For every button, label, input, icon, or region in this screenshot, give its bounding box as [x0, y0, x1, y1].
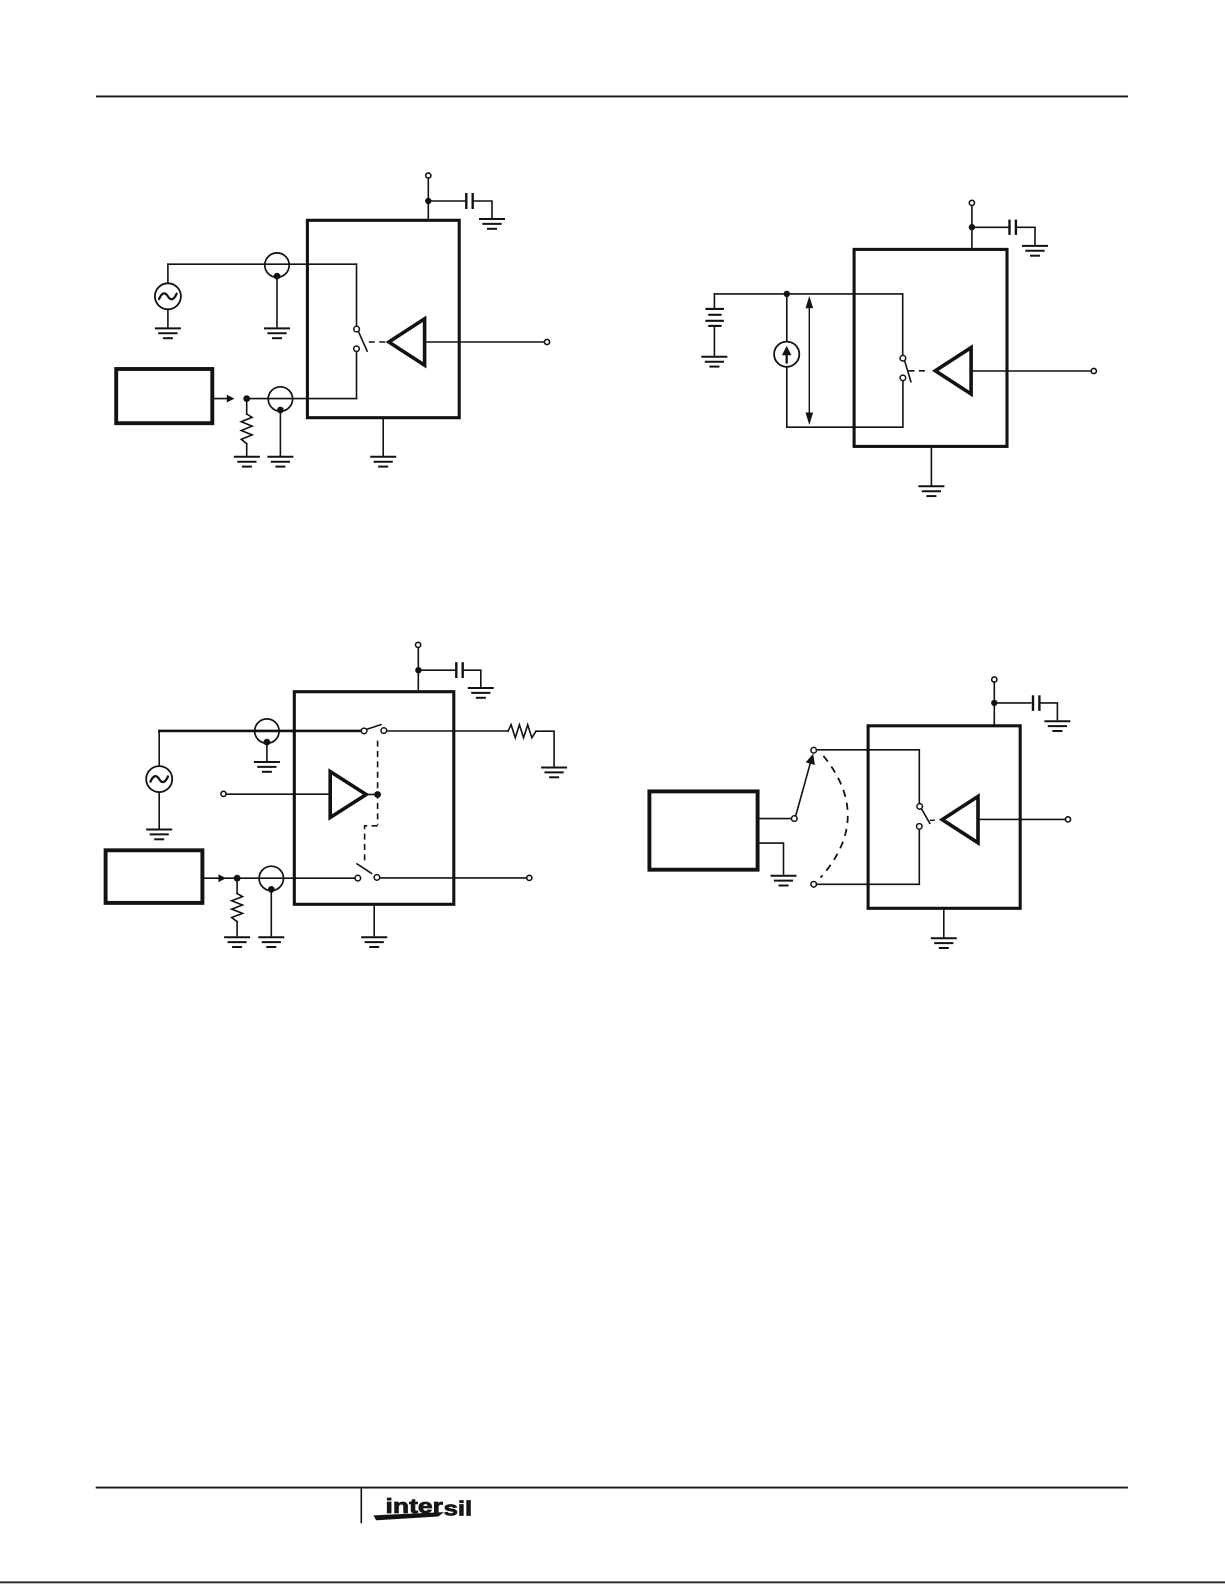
bottom scan line: [0, 1581, 1225, 1583]
oscillator source (circuit 3): [146, 766, 172, 792]
ground at lower probe (circuit 1): [267, 457, 293, 467]
intersil logo: [373, 1495, 472, 1521]
wire probe upper to ground (circuit 3): [266, 746, 268, 761]
wire junction to resistor (circuit 1): [246, 399, 248, 414]
ground at upper probe (circuit 1): [264, 328, 290, 338]
wire to bypass capacitor (circuit 4): [994, 702, 1031, 704]
wire to bypass capacitor (circuit 3): [418, 669, 455, 671]
selector dashed travel arc (circuit 4): [821, 756, 848, 878]
output terminal (circuit 1): [544, 339, 549, 344]
buffer amplifier (circuit 3): [330, 772, 366, 818]
wire to load resistor (circuit 3): [387, 730, 508, 732]
upper switch right contact (circuit 3): [381, 728, 387, 734]
wire probe lower to ground (circuit 1): [279, 414, 281, 456]
switch bottom contact (circuit 2): [900, 375, 906, 381]
switch top contact (circuit 4): [917, 804, 923, 810]
wire input to buffer (circuit 3): [226, 793, 330, 795]
ground at termination resistor (circuit 3): [224, 937, 250, 947]
dashed link switch to buffer (circuit 1): [369, 341, 386, 343]
wire switch bottom contact down (circuit 1): [356, 352, 358, 399]
junction V+ (circuit 4): [991, 700, 997, 706]
wire capacitor to ground (circuit 1): [473, 201, 492, 218]
ground at DUT (circuit 3): [361, 937, 387, 947]
wire to current source (circuit 2): [786, 294, 788, 342]
wire to switch bottom contact (circuit 4): [918, 829, 920, 884]
wire DUT ground pin (circuit 1): [382, 418, 384, 456]
selector pivot contact (circuit 4): [792, 816, 798, 822]
lower switch right contact (circuit 3): [374, 875, 380, 881]
terminal V+ (circuit 3): [416, 642, 421, 647]
wire output lower (circuit 3): [380, 877, 527, 879]
signal flow arrow (circuit 1): [227, 395, 235, 403]
wire capacitor to ground (circuit 2): [1016, 227, 1035, 244]
wire switch bottom contact down (circuit 2): [902, 381, 904, 428]
wire junction to resistor (circuit 3): [236, 878, 238, 893]
ground at bypass capacitor (circuit 4): [1044, 721, 1070, 731]
ground at DUT (circuit 1): [370, 457, 396, 467]
svg-text:sil: sil: [444, 1498, 473, 1521]
upper switch blade (circuit 3): [367, 725, 381, 730]
wire to switch top contact (circuit 4): [918, 750, 920, 804]
switch blade (circuit 4): [921, 809, 929, 824]
junction at termination resistor (circuit 3): [234, 875, 241, 882]
wire to switch top contact (circuit 1): [356, 264, 358, 326]
wire resistor to ground (circuit 1): [246, 444, 248, 456]
terminal V+ (circuit 4): [992, 677, 997, 682]
wire V+ vertical (circuit 1): [427, 178, 429, 220]
wire resistor to ground (circuit 3): [236, 922, 238, 936]
output wire (circuit 1): [425, 341, 545, 343]
wire capacitor to ground (circuit 4): [1039, 703, 1057, 720]
ground at oscillator (circuit 3): [146, 830, 172, 840]
junction V+ (circuit 1): [425, 198, 431, 204]
test circuit 3: DUT box: [294, 692, 454, 905]
wire oscillator to ground (circuit 3): [158, 792, 160, 828]
dashed link switch to buffer (circuit 2): [909, 370, 927, 372]
wire resistor to ground (circuit 3): [536, 731, 554, 766]
current probe lower (circuit 3): [259, 866, 283, 893]
voltage span arrow (circuit 2): [806, 296, 814, 425]
output terminal (circuit 3): [527, 875, 532, 880]
wire DUT ground pin (circuit 4): [943, 908, 945, 936]
battery V1 (circuit 2): [705, 309, 724, 326]
switch blade (circuit 2): [905, 361, 911, 382]
termination resistor (circuit 1): [241, 414, 252, 444]
wire V+ vertical (circuit 3): [417, 648, 419, 692]
wire probe lower to ground (circuit 3): [270, 893, 272, 936]
selector bottom contact (circuit 4): [811, 882, 817, 888]
ground at lower probe (circuit 3): [258, 937, 284, 947]
current probe lower (circuit 1): [268, 387, 292, 414]
terminal V+ (circuit 1): [426, 173, 431, 178]
upper switch left contact (circuit 3): [361, 728, 367, 734]
oscillator source (circuit 1): [155, 283, 181, 309]
ground at termination resistor (circuit 1): [234, 457, 260, 467]
junction V+ (circuit 2): [969, 224, 975, 230]
footer rule: [96, 1487, 1128, 1489]
junction at current source (circuit 2): [784, 291, 790, 297]
ground at generator (circuit 4): [771, 876, 797, 886]
terminal V+ (circuit 2): [969, 200, 974, 205]
wire battery stem upper (circuit 2): [713, 294, 715, 308]
signal flow arrow (circuit 3): [218, 874, 226, 882]
bypass capacitor (circuit 4): [1033, 695, 1039, 711]
buffer amplifier (circuit 2): [935, 348, 971, 394]
wire pulse generator output (circuit 1): [212, 398, 232, 400]
bypass capacitor (circuit 3): [456, 662, 462, 678]
output terminal (circuit 2): [1091, 368, 1096, 373]
current probe upper (circuit 3): [255, 719, 279, 746]
wire pulse input (circuit 3): [202, 877, 354, 879]
lower switch blade (circuit 3): [357, 864, 371, 874]
current probe upper (circuit 1): [265, 253, 289, 280]
switch bottom contact (circuit 4): [917, 824, 923, 830]
selector blade with arrow (circuit 4): [796, 754, 815, 816]
wire battery stem lower (circuit 2): [713, 326, 715, 355]
wire probe upper to ground (circuit 1): [276, 280, 278, 327]
ground at oscillator (circuit 1): [155, 328, 181, 338]
pulse generator (circuit 3): [106, 850, 203, 903]
dashed control line upper (circuit 3): [377, 741, 379, 825]
wire generator ground stub (circuit 4): [758, 843, 784, 874]
wire current source to bottom rail (circuit 2): [786, 367, 788, 427]
wire oscillator riser (circuit 3): [158, 731, 160, 766]
test circuit 2: DUT box: [854, 249, 1007, 446]
wire bottom input (circuit 4): [816, 883, 919, 885]
test circuit 4: DUT box: [868, 726, 1020, 909]
footer divider: [360, 1488, 362, 1522]
switch top contact (circuit 2): [900, 355, 906, 361]
selector top contact (circuit 4): [811, 747, 817, 753]
junction V+ (circuit 3): [415, 667, 421, 673]
top rule: [96, 95, 1128, 97]
switch top contact (circuit 1): [354, 326, 360, 332]
wire DUT ground pin (circuit 3): [373, 904, 375, 935]
wire to switch top contact (circuit 2): [902, 294, 904, 356]
ground at upper probe (circuit 3): [254, 762, 280, 772]
bypass capacitor (circuit 1): [466, 193, 472, 209]
output wire (circuit 2): [971, 370, 1091, 372]
ground at bypass capacitor (circuit 3): [468, 688, 494, 698]
ground at bypass capacitor (circuit 2): [1022, 246, 1048, 256]
buffer amplifier (circuit 4): [942, 796, 978, 842]
output wire (circuit 4): [980, 818, 1066, 820]
switch blade (circuit 1): [358, 331, 367, 351]
dashed link switch to buffer (circuit 4): [930, 819, 935, 821]
junction at load resistor (circuit 1): [243, 395, 250, 402]
switch bottom contact (circuit 1): [354, 346, 360, 352]
buffer amplifier (circuit 1): [389, 319, 425, 365]
wire input lower inside (circuit 1): [246, 398, 356, 400]
wire to bypass capacitor (circuit 2): [972, 226, 1008, 228]
signal generator (circuit 4): [649, 791, 757, 869]
wire bottom rail (circuit 2): [787, 426, 903, 428]
current source I1 (circuit 2): [774, 342, 799, 367]
wire oscillator riser (circuit 1): [167, 264, 169, 283]
wire input upper (circuit 3): [159, 730, 361, 733]
wire battery rail (circuit 2): [714, 293, 902, 295]
ground at DUT (circuit 4): [931, 938, 957, 948]
dashed control line jog (circuit 3): [365, 826, 378, 864]
wire DUT ground pin (circuit 2): [930, 446, 932, 485]
wire buffer output stub (circuit 3): [366, 794, 376, 796]
test circuit 1: DUT box: [307, 220, 459, 417]
bypass capacitor (circuit 2): [1010, 220, 1016, 235]
output terminal (circuit 4): [1065, 817, 1070, 822]
load resistor RL (circuit 3): [508, 725, 536, 738]
ground at load resistor (circuit 3): [541, 768, 567, 778]
wire V+ vertical (circuit 2): [971, 206, 973, 250]
ground at battery (circuit 2): [701, 357, 727, 367]
wire top input (circuit 4): [816, 749, 919, 751]
wire V+ vertical (circuit 4): [993, 682, 995, 726]
wire capacitor to ground (circuit 3): [463, 670, 481, 686]
buffer output node (circuit 3): [374, 791, 381, 798]
input terminal (circuit 3): [221, 791, 226, 796]
ground at DUT (circuit 2): [918, 486, 944, 496]
pulse generator (circuit 1): [116, 369, 212, 423]
termination resistor (circuit 3): [232, 894, 243, 922]
ground at bypass capacitor (circuit 1): [479, 219, 505, 229]
wire to bypass capacitor (circuit 1): [428, 200, 465, 202]
wire oscillator to ground (circuit 1): [167, 309, 169, 326]
wire input upper (circuit 1): [168, 263, 357, 265]
lower switch left contact (circuit 3): [355, 875, 361, 881]
wire generator output (circuit 4): [758, 818, 792, 820]
